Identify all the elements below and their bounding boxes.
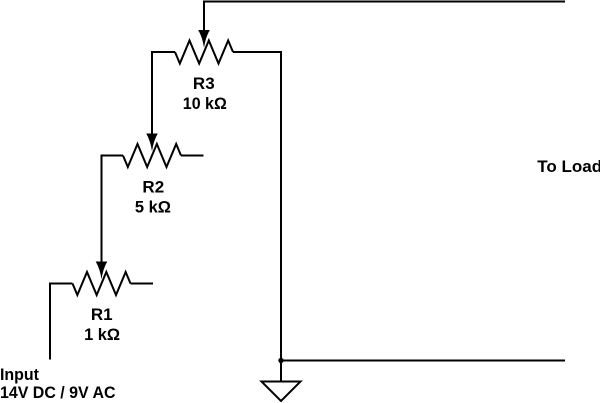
svg-text:R3: R3 [193, 74, 215, 93]
svg-text:Input: Input [0, 365, 39, 384]
svg-text:5 kΩ: 5 kΩ [135, 198, 171, 217]
svg-text:1 kΩ: 1 kΩ [84, 325, 120, 344]
svg-text:R1: R1 [91, 305, 113, 324]
svg-text:To Load: To Load [537, 157, 600, 176]
svg-text:R2: R2 [142, 178, 164, 197]
svg-text:14V DC / 9V AC: 14V DC / 9V AC [0, 383, 116, 402]
svg-text:10 kΩ: 10 kΩ [183, 94, 227, 113]
